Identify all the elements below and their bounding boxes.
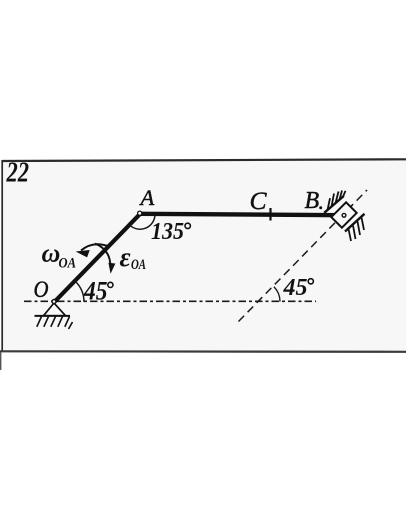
support hatching [37, 317, 73, 330]
epsilon direction arrow [95, 244, 110, 267]
upper rail hatching [328, 191, 346, 211]
period dot after B [319, 206, 322, 209]
joint circle A [138, 211, 142, 215]
svg-text:OA: OA [131, 257, 146, 273]
svg-text:O: O [34, 277, 49, 303]
lower rail hatching [349, 218, 365, 242]
svg-text:A: A [139, 185, 155, 210]
pin support at O: triangle [44, 303, 66, 316]
dash-dot horizontal reference line through O [24, 300, 316, 302]
45-degree angle arc at O [76, 282, 85, 303]
svg-text:45: 45 [283, 275, 308, 301]
panel top border [2, 159, 406, 161]
pin circle B [342, 213, 346, 217]
svg-text:45: 45 [83, 276, 107, 305]
135-degree angle arc at A [130, 215, 155, 230]
support base line [35, 315, 71, 317]
panel bottom border [0, 350, 406, 353]
svg-text:ω: ω [42, 239, 61, 268]
pivot circle O [52, 300, 56, 304]
panel left border [1, 160, 3, 351]
crank OA [55, 214, 141, 302]
figure panel background [2, 160, 406, 351]
svg-text:C: C [250, 186, 268, 215]
svg-text:ε: ε [120, 242, 131, 272]
svg-text:B: B [305, 188, 320, 214]
left edge artifact below panel [0, 352, 2, 370]
45-degree angle arc at guide/reference intersection [274, 287, 280, 302]
svg-text:OA: OA [59, 256, 77, 272]
slider guide upper rail [324, 196, 344, 213]
tick mark at C [269, 208, 271, 221]
link AB [140, 214, 342, 215]
dashed 45-degree guide axis through B [239, 190, 368, 322]
omega direction arrow [81, 244, 109, 250]
slider guide lower rail [345, 214, 365, 232]
slider block at B [331, 202, 356, 227]
svg-text:135: 135 [151, 219, 184, 245]
svg-text:22: 22 [6, 157, 29, 189]
